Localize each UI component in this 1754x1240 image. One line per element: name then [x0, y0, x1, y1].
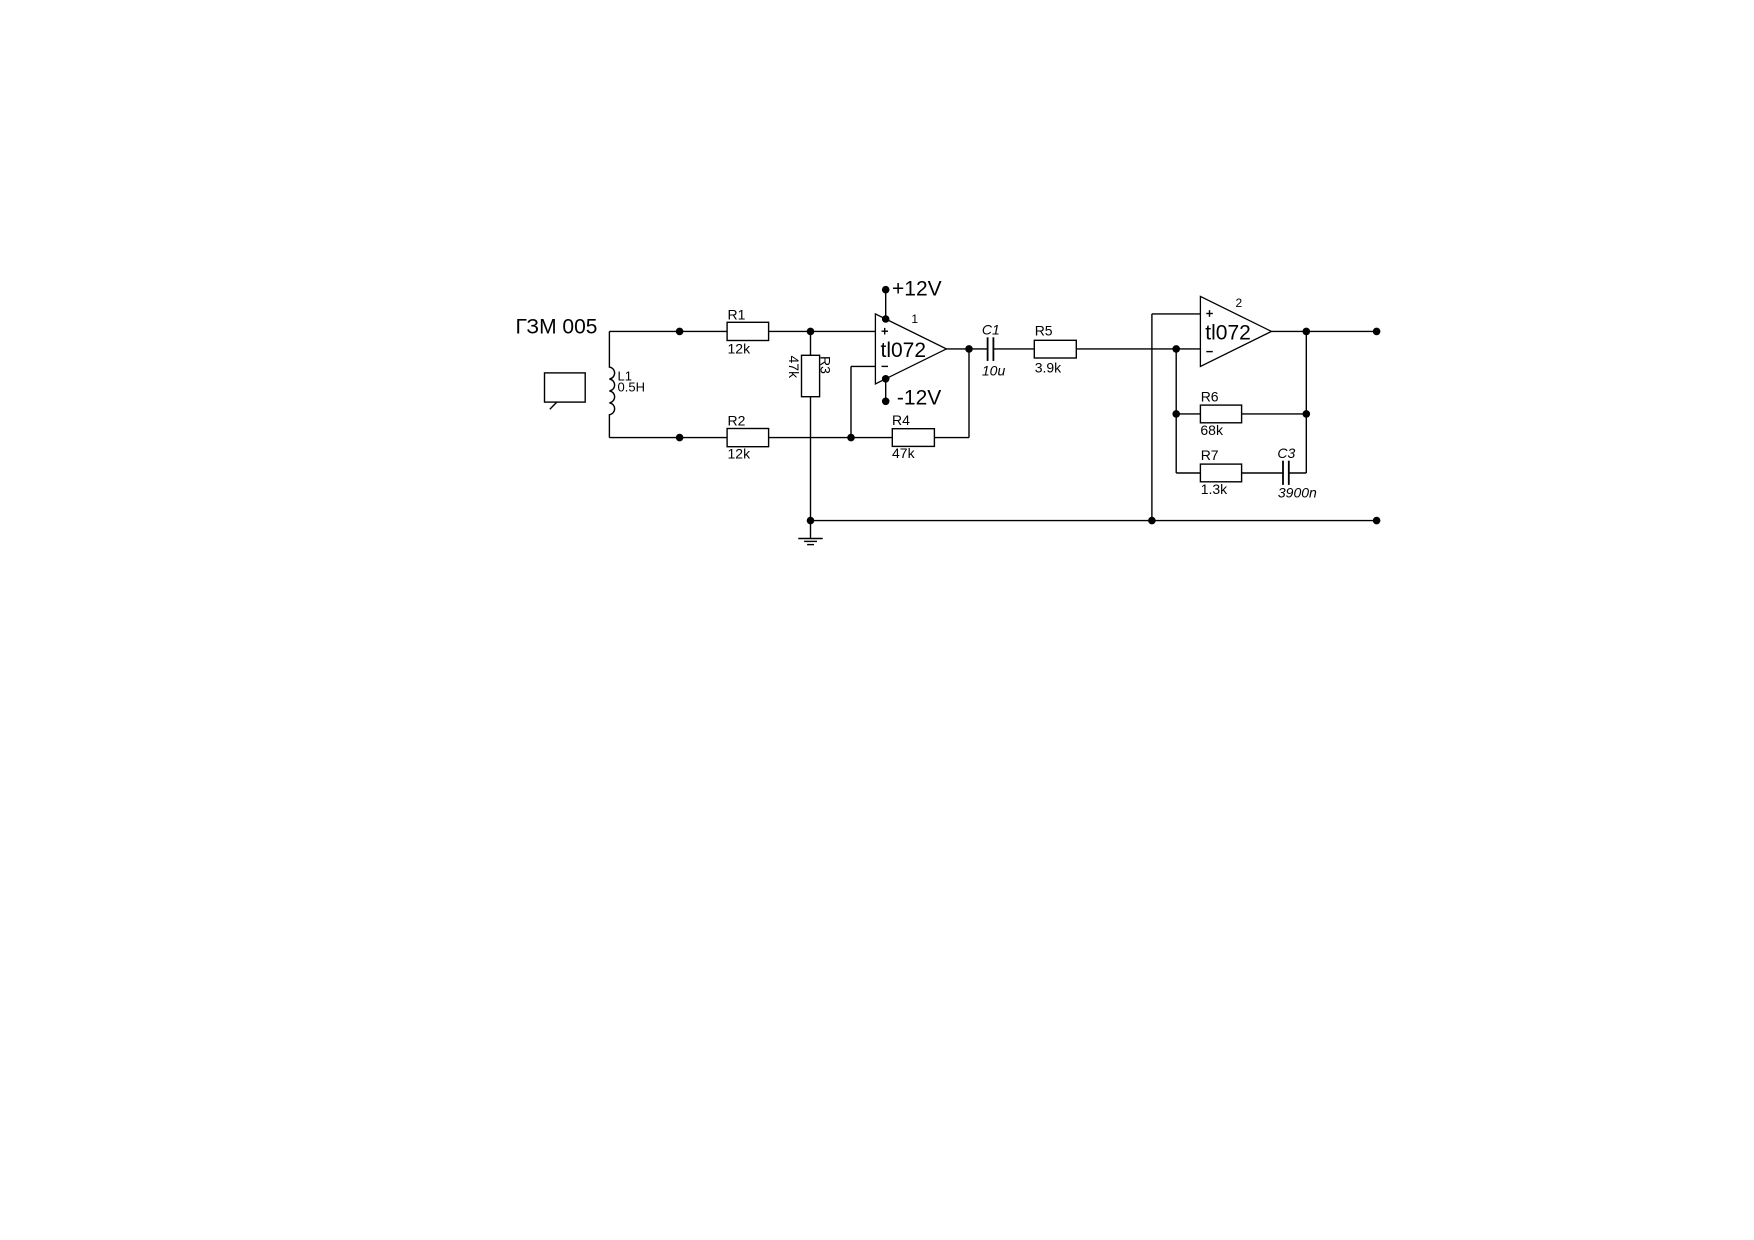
svg-text:R1: R1	[728, 307, 746, 323]
svg-text:R5: R5	[1035, 322, 1053, 338]
svg-text:C1: C1	[982, 322, 1000, 338]
svg-text:1: 1	[911, 312, 918, 326]
svg-text:-12V: -12V	[897, 386, 941, 409]
svg-text:10u: 10u	[982, 362, 1006, 378]
svg-text:ГЗМ 005: ГЗМ 005	[516, 316, 598, 339]
svg-text:R7: R7	[1201, 447, 1219, 463]
svg-text:C3: C3	[1277, 445, 1295, 461]
svg-text:R4: R4	[892, 412, 910, 428]
svg-text:1.3k: 1.3k	[1201, 481, 1228, 497]
svg-text:+12V: +12V	[892, 277, 942, 300]
svg-text:2: 2	[1236, 296, 1243, 310]
svg-text:3900n: 3900n	[1278, 484, 1317, 500]
svg-text:R2: R2	[728, 413, 746, 429]
svg-text:68k: 68k	[1200, 422, 1224, 438]
svg-text:3.9k: 3.9k	[1035, 360, 1062, 376]
svg-text:12k: 12k	[728, 340, 752, 356]
svg-text:R3: R3	[818, 356, 834, 374]
svg-text:47k: 47k	[786, 356, 802, 380]
svg-text:R6: R6	[1201, 389, 1219, 405]
svg-text:12k: 12k	[728, 446, 752, 462]
svg-text:47k: 47k	[892, 445, 916, 461]
svg-text:tl072: tl072	[1205, 322, 1251, 345]
svg-text:0.5H: 0.5H	[618, 380, 645, 395]
svg-text:tl072: tl072	[881, 339, 927, 362]
